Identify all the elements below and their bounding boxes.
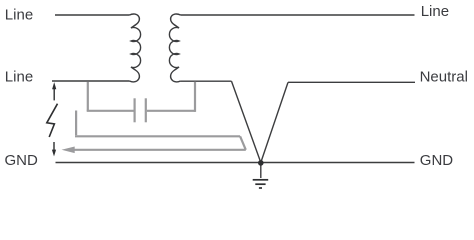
gray surge-current path diagonal jog down (240, 136, 246, 150)
inductor L1 primary winding (left coil) (130, 14, 141, 82)
surge arrow down (toward GND) (52, 142, 56, 156)
inductor L2 secondary winding (right coil) (169, 14, 180, 82)
wire secondary winding bottom horizontal run (181, 80, 232, 82)
svg-text:GND: GND (5, 152, 39, 169)
earth ground symbol (253, 180, 269, 188)
wire top-left Line to primary winding top (55, 14, 130, 16)
svg-text:Line: Line (5, 68, 33, 85)
svg-text:Line: Line (421, 3, 449, 20)
gray wire capacitor right plate to vertical riser (147, 110, 195, 112)
svg-text:Neutral: Neutral (420, 68, 468, 85)
gray wire from Line down (parasitic capacitance branch) (87, 82, 89, 111)
gray surge-current return run to the left (74, 149, 246, 151)
wire ground stub below junction (260, 163, 262, 179)
gray return-path arrowhead pointing left (62, 147, 75, 154)
gray wire riser up to secondary bottom wire (194, 82, 196, 112)
surge arrow up (lightning strike, toward Line) (52, 82, 56, 100)
capacitor C1 left plate (134, 98, 136, 122)
capacitor C1 right plate (145, 98, 147, 122)
wire middle-left Line to primary winding bottom (52, 80, 130, 82)
gray wire horizontal to capacitor left plate (87, 110, 134, 112)
gray surge-current path vertical start segment (75, 111, 77, 136)
junction node (neutral-ground bond) (258, 160, 264, 166)
lightning bolt symbol (47, 104, 58, 137)
wire GND bus left-to-right (56, 162, 415, 164)
gray surge-current path horizontal run to the right (75, 135, 240, 137)
svg-text:GND: GND (420, 152, 454, 169)
wire diagonal from winding bottom down to ground junction (232, 81, 261, 162)
wire diagonal from ground junction up to Neutral (261, 82, 288, 162)
svg-text:Line: Line (5, 6, 33, 23)
wire Neutral horizontal to right terminal (288, 81, 415, 83)
wire top-right Line to secondary winding top (181, 14, 415, 16)
